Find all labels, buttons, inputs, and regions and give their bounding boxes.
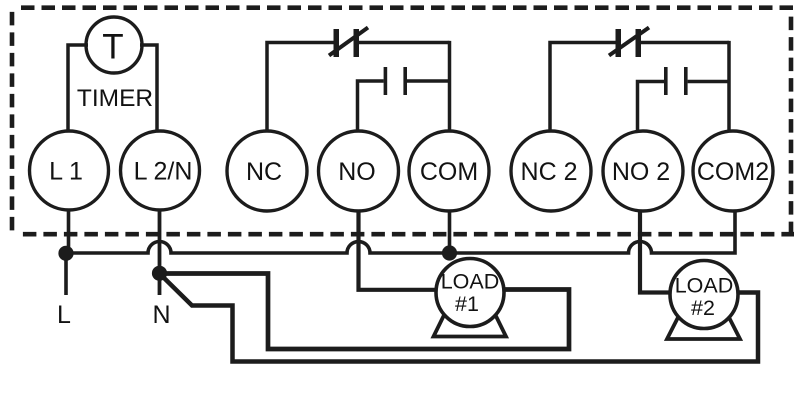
terminal NC 2 [511, 131, 591, 211]
NO contact (normally open) [384, 67, 407, 95]
NC contact (normally closed) [329, 28, 368, 58]
svg-text:LOAD: LOAD [441, 270, 500, 294]
wire NO to contact [358, 81, 384, 131]
wire NC contact to COM node [359, 41, 450, 45]
terminal COM2 [693, 131, 773, 211]
svg-text:L 1: L 1 [49, 158, 83, 186]
svg-text:N: N [152, 301, 170, 329]
svg-text:#2: #2 [691, 296, 715, 320]
NO 2 contact (normally open) [664, 67, 688, 95]
terminal NO 2 [603, 131, 683, 211]
wire NO contact to COM vertical [407, 79, 450, 83]
wire L1 down to L [66, 209, 69, 295]
wire T to L2/N [140, 45, 157, 132]
svg-text:LOAD: LOAD [675, 274, 734, 298]
svg-text:COM2: COM2 [697, 158, 769, 186]
svg-text:T: T [102, 28, 123, 67]
load LOAD #2 [670, 261, 738, 329]
wire NC 2 to contact [550, 43, 616, 132]
svg-text:L: L [57, 301, 71, 329]
terminal NO [319, 131, 399, 211]
svg-text:L 2/N: L 2/N [134, 158, 193, 186]
wire COM2 vertical [727, 41, 731, 131]
svg-text:NC 2: NC 2 [521, 158, 578, 186]
terminal NC [227, 131, 307, 211]
wire N to LOAD #2 return [161, 275, 758, 362]
terminal L 1 [30, 131, 109, 210]
LOAD #2 stand [667, 312, 740, 340]
wire COM down to line [448, 211, 452, 254]
wire T to L1 [68, 45, 88, 132]
junction node at COM [442, 245, 457, 260]
wire NO 2 contact to COM2 vertical [688, 80, 730, 84]
terminal COM [409, 131, 489, 211]
svg-text:TIMER: TIMER [77, 85, 153, 112]
timer enclosure dashed border [12, 8, 794, 237]
wire NC 2 contact to COM2 node [641, 41, 729, 45]
wire N to LOAD #1 return [160, 274, 570, 350]
svg-text:NO 2: NO 2 [612, 158, 670, 186]
junction node at L [58, 246, 73, 261]
svg-text:NC: NC [246, 158, 282, 186]
timer symbol T [86, 17, 142, 73]
wire L2/N down to N [158, 210, 162, 295]
terminal L 2/N [121, 131, 200, 210]
svg-text:#1: #1 [455, 292, 479, 316]
wire NO down to LOAD #1 [359, 211, 438, 290]
svg-text:NO: NO [338, 158, 376, 186]
junction node at N [152, 266, 167, 281]
LOAD #1 stand [434, 308, 507, 337]
wire NO 2 to contact [638, 82, 665, 132]
wire COM vertical [448, 41, 452, 131]
wire NO 2 down to LOAD #2 [640, 211, 671, 293]
wire L supply line to COM and COM2 (with hops) [66, 211, 735, 253]
wire NC to contact [267, 43, 334, 132]
NC 2 contact (normally closed) [609, 28, 649, 58]
load LOAD #1 [436, 259, 504, 327]
svg-text:COM: COM [420, 158, 478, 186]
